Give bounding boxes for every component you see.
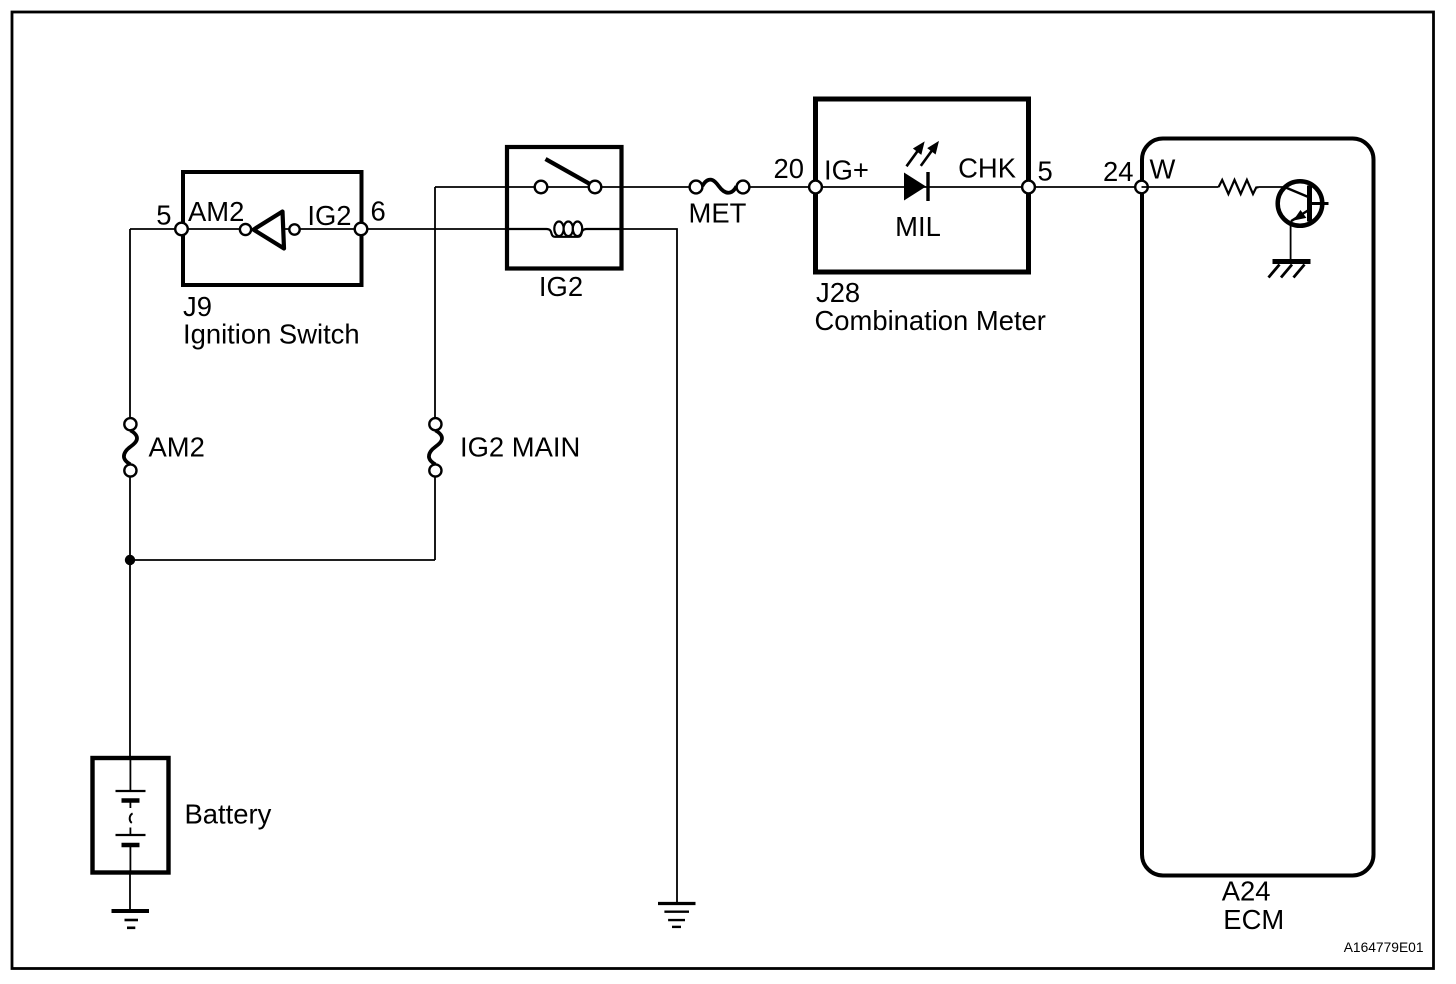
svg-text:AM2: AM2 (188, 196, 244, 227)
pin 6 terminal (355, 223, 368, 236)
ignition switch contact triangle (254, 212, 285, 249)
wire MET to ECM (743, 186, 1142, 188)
node contact circle right (289, 224, 299, 234)
svg-text:Ignition Switch: Ignition Switch (183, 319, 360, 350)
node contact circle left (240, 224, 251, 235)
svg-text:ECM: ECM (1223, 904, 1284, 935)
combination meter J28 box (815, 99, 1046, 336)
svg-text:MET: MET (689, 198, 747, 229)
svg-text:Combination Meter: Combination Meter (815, 305, 1046, 336)
wire junction horizontal (130, 559, 435, 561)
pin 24 terminal (1135, 181, 1148, 194)
fuse MET (689, 180, 750, 229)
svg-text:Battery: Battery (185, 799, 272, 830)
ignition switch J9 box (183, 172, 362, 350)
wire transistor emitter to ground (1290, 222, 1292, 261)
svg-text:A164779E01: A164779E01 (1344, 940, 1424, 955)
svg-text:J9: J9 (183, 291, 212, 322)
pin 5 terminal (1022, 181, 1035, 194)
fuse IG2 MAIN (429, 418, 580, 477)
svg-text:IG2: IG2 (307, 200, 351, 231)
node junction dot (125, 555, 135, 565)
svg-text:A24: A24 (1222, 876, 1271, 907)
wire battery to ground (129, 873, 131, 910)
pin 5 terminal (175, 223, 188, 236)
svg-text:CHK: CHK (958, 153, 1016, 184)
fuse AM2 (124, 418, 205, 477)
svg-text:6: 6 (371, 196, 386, 227)
relay IG2 box (507, 147, 622, 302)
transistor Q1 (1278, 181, 1329, 226)
svg-text:5: 5 (156, 200, 171, 231)
wire ignition switch row horizontal (130, 228, 507, 230)
wire battery feed left vertical (129, 229, 131, 758)
svg-text:20: 20 (774, 153, 804, 184)
ground ECM internal (1269, 262, 1311, 278)
wire resistor to transistor (1259, 186, 1286, 188)
wire terminal 24 to resistor (1142, 186, 1219, 188)
LED MIL (895, 142, 941, 242)
svg-text:W: W (1150, 154, 1176, 185)
svg-text:24: 24 (1103, 156, 1133, 187)
wire IG2 MAIN vertical (434, 187, 436, 560)
wire switch row to MET (435, 186, 696, 188)
relay coil (507, 222, 622, 237)
resistor (1219, 180, 1259, 194)
relay switch contact left (535, 181, 548, 194)
svg-text:AM2: AM2 (149, 432, 205, 463)
relay switch contact right (589, 181, 602, 194)
svg-text:5: 5 (1038, 156, 1053, 187)
relay switch blade (546, 159, 590, 184)
battery (93, 758, 272, 873)
svg-text:MIL: MIL (895, 211, 941, 242)
ground center (658, 904, 696, 927)
ground battery (112, 911, 150, 928)
svg-text:IG2: IG2 (539, 271, 583, 302)
svg-text:J28: J28 (816, 277, 860, 308)
svg-text:IG+: IG+ (824, 155, 869, 186)
ECM A24 box (1142, 139, 1374, 936)
pin 20 terminal (809, 181, 822, 194)
wire relay coil to ground vertical (622, 229, 677, 903)
svg-text:IG2 MAIN: IG2 MAIN (460, 432, 580, 463)
